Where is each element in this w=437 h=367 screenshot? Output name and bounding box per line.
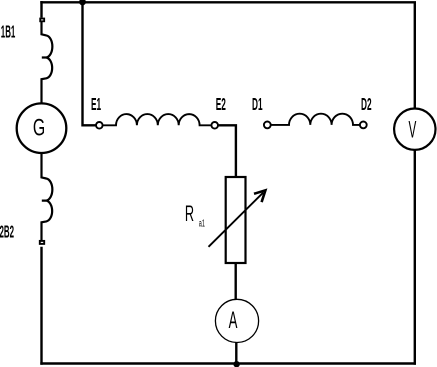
- svg-text:R: R: [185, 201, 194, 225]
- svg-text:E1: E1: [91, 93, 101, 114]
- svg-text:2B2: 2B2: [0, 221, 14, 242]
- svg-text:E2: E2: [216, 93, 226, 114]
- svg-text:G: G: [33, 115, 45, 141]
- svg-text:a1: a1: [199, 218, 205, 229]
- svg-text:D1: D1: [252, 93, 263, 114]
- svg-text:1B1: 1B1: [1, 21, 16, 42]
- svg-text:A: A: [229, 307, 238, 334]
- svg-text:D2: D2: [361, 93, 372, 114]
- svg-text:V: V: [409, 117, 417, 144]
